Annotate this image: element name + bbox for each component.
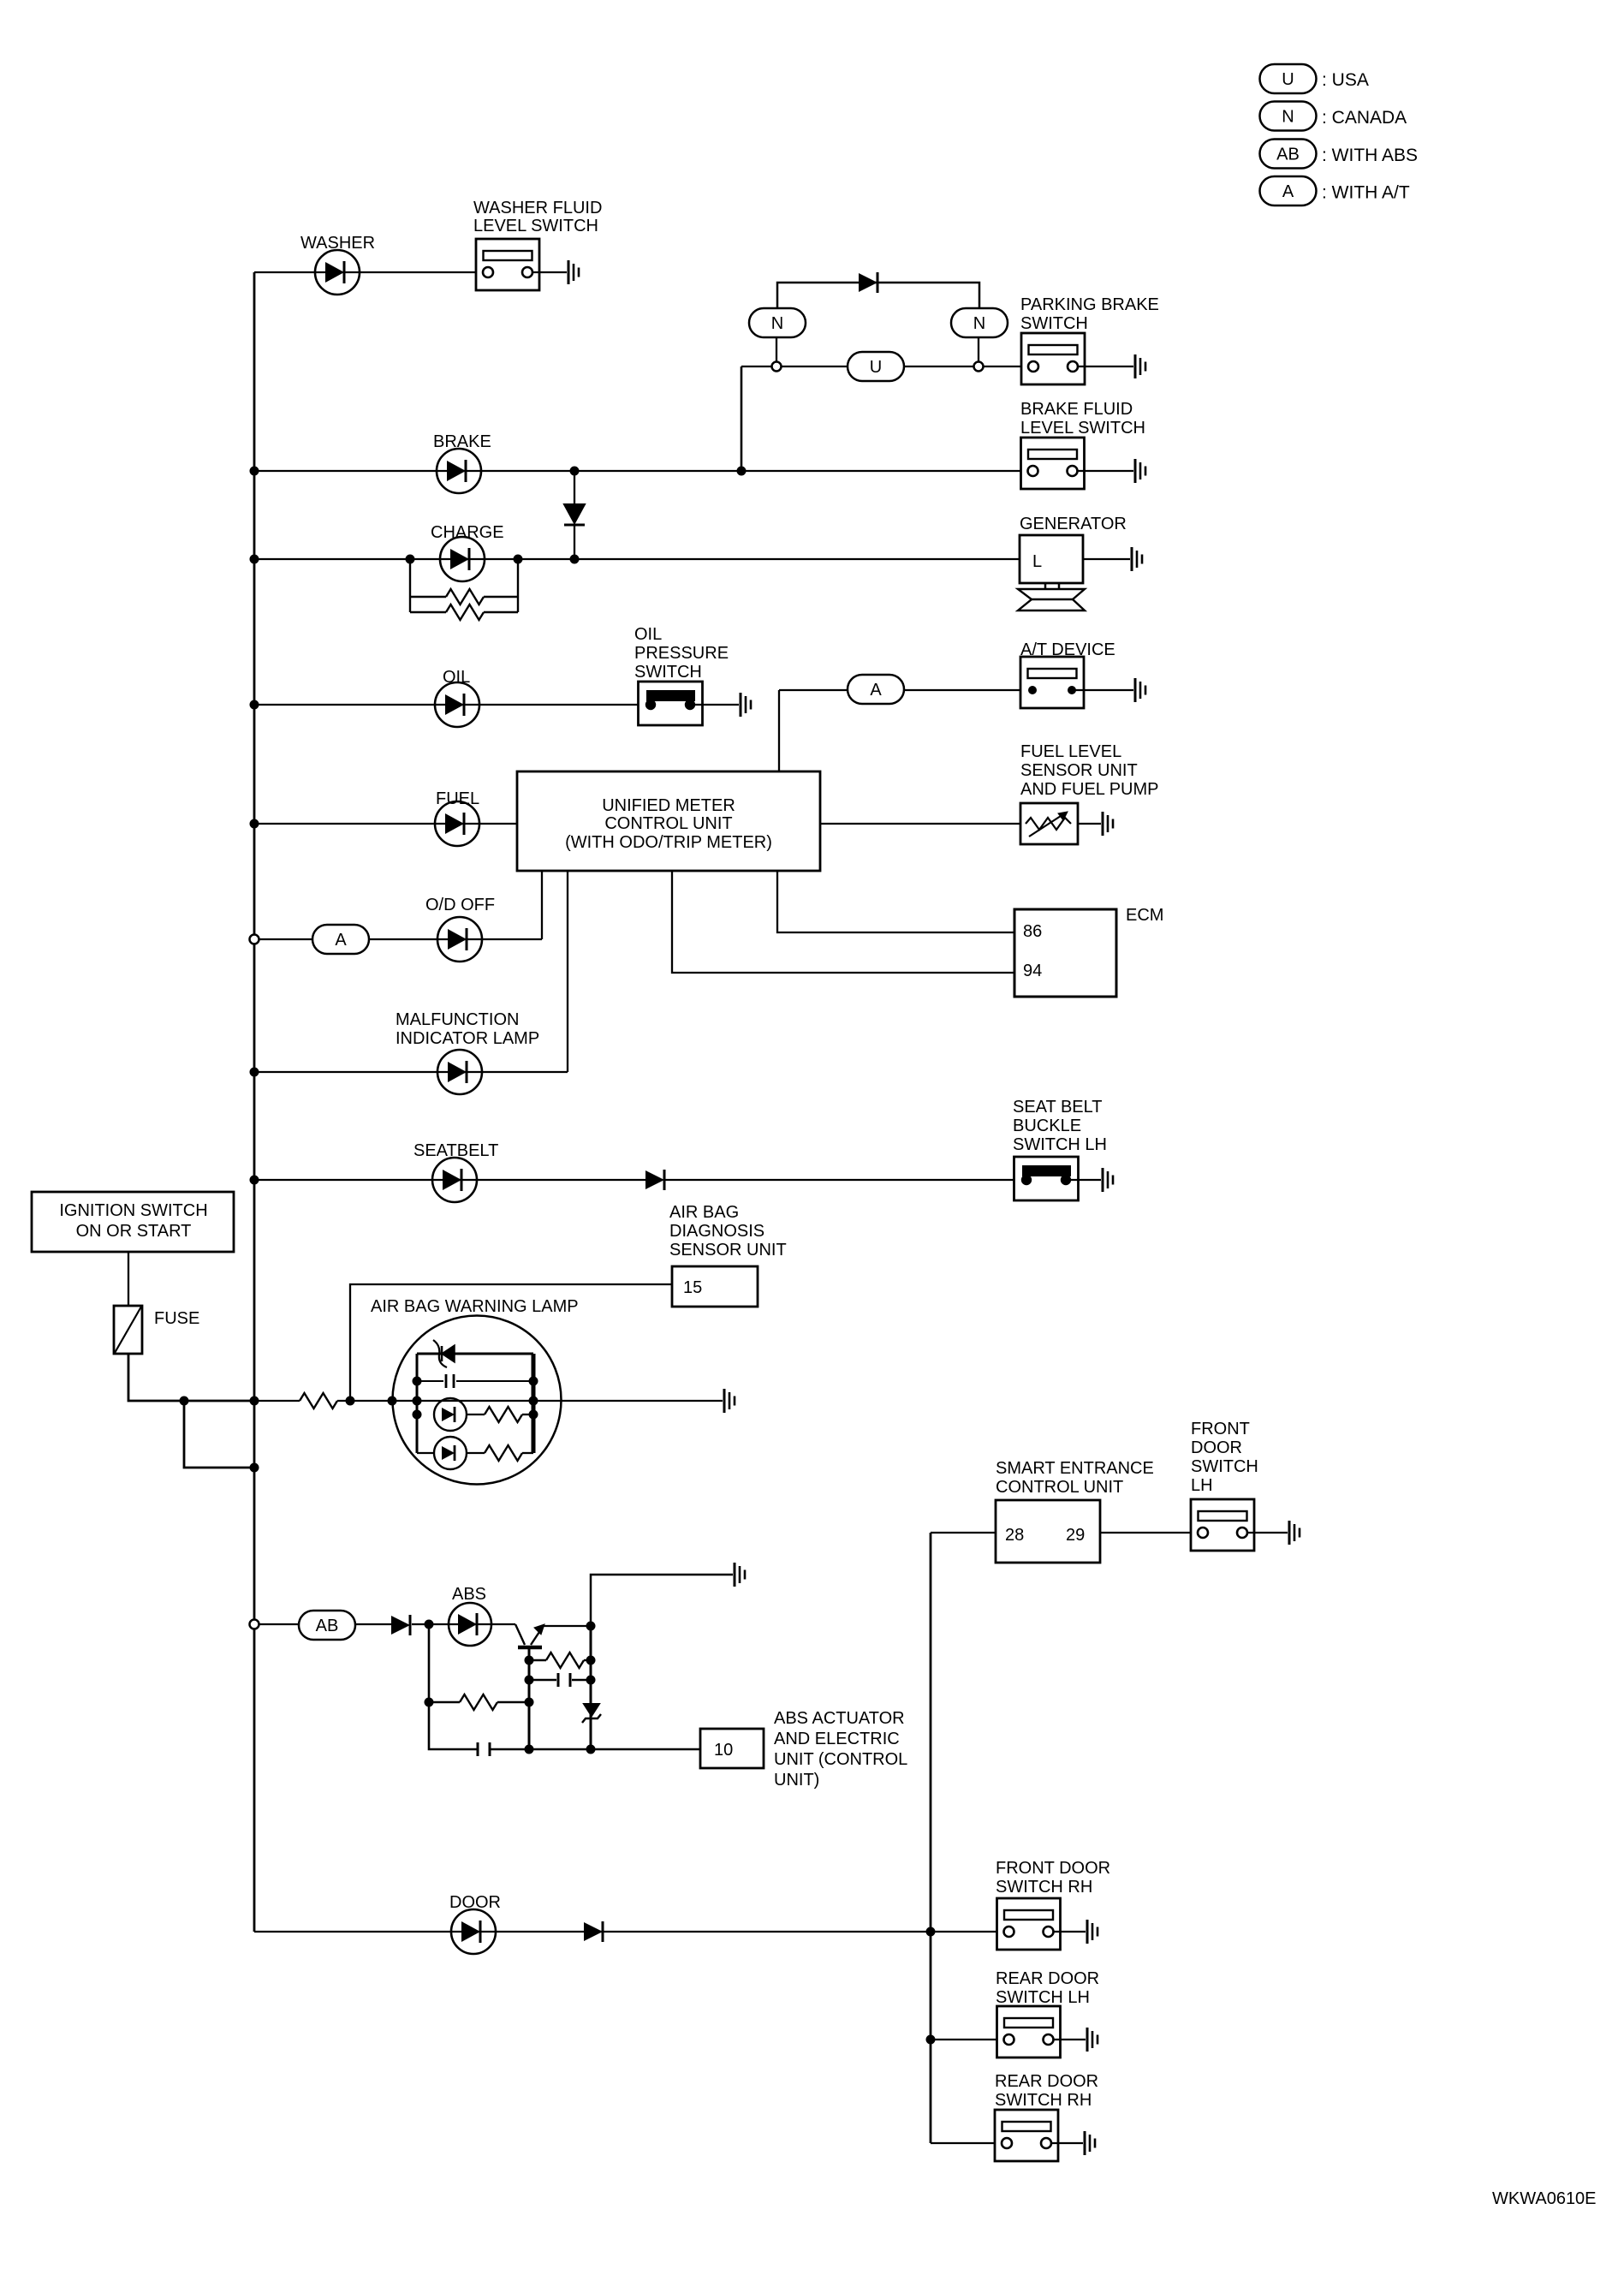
lamp airbag element lower: [417, 1437, 467, 1469]
svg-text:AB: AB: [1276, 146, 1300, 164]
svg-text:N: N: [973, 314, 985, 333]
wire riser to diagnosis sensor unit: [350, 1284, 672, 1401]
wire A/T device to ground: [1072, 689, 1133, 691]
wire brake row: [254, 470, 1027, 472]
wire ABS feedback resistor row: [529, 1659, 591, 1661]
ground front door switch LH: [1289, 1521, 1300, 1545]
rear door switch LH: [997, 2006, 1061, 2058]
svg-text:OIL: OIL: [443, 668, 470, 687]
svg-text:SWITCH: SWITCH: [634, 663, 702, 682]
option connector AB: [299, 1611, 355, 1640]
wire washer row left: [254, 271, 482, 273]
wire transistor emitter to right rail: [543, 1625, 591, 1627]
node open junction N left: [772, 362, 782, 372]
oil pressure switch: [639, 682, 703, 725]
wire rail to rear door switch RH: [931, 2142, 1002, 2144]
svg-text:AND FUEL PUMP: AND FUEL PUMP: [1020, 780, 1159, 799]
wire oil switch to ground: [690, 704, 739, 706]
node bus-seatbelt junction: [250, 1176, 259, 1185]
node ABS resistor junctions: [525, 1656, 596, 1665]
warning lamp FUEL: [435, 801, 479, 846]
air bag warning lamp assembly: [393, 1316, 562, 1485]
svg-text:SWITCH: SWITCH: [1020, 314, 1088, 333]
svg-text:PRESSURE: PRESSURE: [634, 644, 729, 663]
svg-text:FUEL: FUEL: [436, 789, 479, 808]
svg-text:86: 86: [1023, 922, 1042, 941]
wire diode to ABS lamp: [412, 1623, 515, 1625]
wire airbag row to resistor: [254, 1400, 300, 1402]
node airbag internal junctions: [388, 1377, 538, 1420]
smart entrance control unit pins 28 29: [996, 1500, 1100, 1563]
ground front door switch RH: [1087, 1920, 1098, 1944]
legend option connector A: [1260, 176, 1317, 205]
ground washer switch: [568, 260, 579, 284]
svg-text:15: 15: [683, 1278, 702, 1297]
wire A oval to A/T device: [904, 689, 1032, 691]
washer fluid level switch: [476, 239, 539, 290]
svg-text:BUCKLE: BUCKLE: [1013, 1117, 1081, 1135]
ground generator: [1132, 547, 1142, 571]
wire ABS bottom row to unit: [490, 1748, 700, 1751]
wire fuel sensor to ground: [1078, 823, 1101, 825]
svg-text:ABS: ABS: [452, 1585, 486, 1604]
wire MIL row: [254, 1071, 568, 1073]
svg-text:: USA: : USA: [1322, 70, 1369, 90]
wire oil row: [254, 704, 651, 706]
diode brake-to-charge: [564, 471, 585, 559]
wire A/T riser to meter unit: [778, 690, 780, 771]
wire buckle switch to ground: [1066, 1179, 1101, 1181]
node ABS branch junction: [425, 1620, 434, 1629]
ECM: [1014, 909, 1116, 997]
warning lamp WASHER: [315, 250, 360, 295]
node charge-diode junction: [570, 555, 580, 564]
svg-text:BRAKE: BRAKE: [433, 432, 491, 451]
svg-text:INDICATOR LAMP: INDICATOR LAMP: [396, 1029, 539, 1048]
svg-text:UNIT): UNIT): [774, 1771, 819, 1790]
svg-text:N: N: [771, 314, 783, 333]
diode airbag lamp top branch: [433, 1340, 455, 1367]
svg-text:U: U: [870, 358, 882, 377]
resistor airbag feed: [300, 1393, 337, 1408]
A/T device: [1020, 657, 1084, 708]
svg-text:N: N: [1282, 108, 1294, 127]
warning lamp OIL: [435, 682, 479, 727]
wire meter unit to ECM pin 86: [777, 871, 1014, 932]
option connector A (A/T row): [848, 675, 904, 704]
svg-text:ABS ACTUATOR: ABS ACTUATOR: [774, 1709, 905, 1728]
wire N connector top loop: [777, 283, 979, 309]
transistor ABS lamp driver: [515, 1624, 544, 1647]
wire N connector left riser: [776, 336, 777, 366]
svg-text:AIR BAG: AIR BAG: [669, 1203, 739, 1222]
svg-text:WKWA0610E: WKWA0610E: [1492, 2189, 1597, 2208]
svg-text:10: 10: [714, 1741, 733, 1760]
svg-text:REAR DOOR: REAR DOOR: [995, 2072, 1098, 2091]
wire O/D OFF row: [259, 938, 542, 940]
svg-text:94: 94: [1023, 962, 1042, 980]
svg-text:SENSOR UNIT: SENSOR UNIT: [1020, 761, 1138, 780]
warning lamp CHARGE: [440, 537, 485, 581]
wire door row: [254, 1931, 1004, 1933]
ground brake fluid level switch: [1135, 459, 1145, 483]
wire charge resistor loop: [410, 559, 518, 612]
option connector A (O/D row): [312, 925, 369, 954]
ground parking brake switch: [1135, 354, 1145, 378]
svg-text:UNIT (CONTROL: UNIT (CONTROL: [774, 1750, 907, 1769]
wire ABS lower resistor row: [429, 1701, 529, 1704]
front door switch LH: [1191, 1499, 1254, 1551]
svg-text:PARKING BRAKE: PARKING BRAKE: [1020, 295, 1159, 314]
wire seatbelt row right: [664, 1179, 1026, 1181]
node open junction bus O/D: [250, 935, 259, 944]
ground oil pressure switch: [741, 693, 751, 717]
svg-text:(WITH ODO/TRIP METER): (WITH ODO/TRIP METER): [565, 833, 772, 852]
wire parking brake row: [741, 366, 1028, 367]
wire fuse parallel loop: [184, 1401, 254, 1468]
warning lamp MALFUNCTION INDICATOR: [437, 1050, 482, 1094]
wire rear door switch RH to ground: [1050, 2142, 1083, 2144]
wire fuse to bus: [128, 1354, 254, 1401]
svg-text:O/D OFF: O/D OFF: [425, 896, 495, 914]
svg-text:SEAT BELT: SEAT BELT: [1013, 1098, 1102, 1117]
node open junction N right: [974, 362, 984, 372]
svg-text:GENERATOR: GENERATOR: [1020, 515, 1127, 533]
svg-text:LEVEL SWITCH: LEVEL SWITCH: [1020, 419, 1145, 438]
resistor airbag element upper: [467, 1407, 533, 1422]
node rail-door junction: [926, 1927, 936, 1937]
diode seatbelt row: [645, 1170, 664, 1190]
svg-text:ON OR START: ON OR START: [76, 1222, 192, 1241]
wire front door switch LH to ground: [1247, 1532, 1288, 1534]
ground A/T device: [1135, 678, 1145, 702]
svg-text:SMART ENTRANCE: SMART ENTRANCE: [996, 1459, 1154, 1478]
ignition switch source box: [32, 1192, 234, 1252]
wire main supply bus vertical: [253, 272, 256, 1932]
air bag diagnosis sensor unit pin 15: [672, 1266, 758, 1307]
svg-text:SWITCH RH: SWITCH RH: [995, 2091, 1092, 2110]
legend option connector N: [1260, 102, 1317, 131]
svg-text:ECM: ECM: [1126, 906, 1163, 925]
svg-text:: WITH ABS: : WITH ABS: [1322, 146, 1418, 165]
diode ABS row: [391, 1615, 410, 1635]
option connector N left: [749, 308, 806, 337]
svg-text:CONTROL UNIT: CONTROL UNIT: [996, 1478, 1123, 1497]
svg-text:SWITCH LH: SWITCH LH: [1013, 1135, 1107, 1154]
ground rear door switch RH: [1085, 2131, 1095, 2155]
rear door switch RH: [995, 2110, 1058, 2161]
resistor charge parallel lower: [446, 604, 484, 620]
node rail-rear-LH junction: [926, 2035, 936, 2045]
zener diode ABS clamp: [582, 1704, 601, 1723]
wire ABS left branch down: [429, 1624, 478, 1749]
svg-text:FRONT: FRONT: [1191, 1420, 1250, 1438]
node ABS lower resistor junctions: [425, 1698, 534, 1707]
svg-text:OIL: OIL: [634, 625, 662, 644]
warning lamp O/D OFF: [437, 917, 482, 962]
node bus-MIL junction: [250, 1068, 259, 1077]
resistor airbag element lower: [467, 1445, 533, 1461]
node open junction bus ABS: [250, 1620, 259, 1629]
svg-text:AND ELECTRIC: AND ELECTRIC: [774, 1730, 900, 1748]
svg-text:SWITCH: SWITCH: [1191, 1457, 1258, 1476]
wire door switch rail vertical: [930, 1533, 932, 2143]
warning lamp BRAKE: [437, 449, 481, 493]
svg-text:U: U: [1282, 70, 1294, 89]
svg-text:SENSOR UNIT: SENSOR UNIT: [669, 1241, 787, 1260]
wire rear door switch LH to ground: [1053, 2039, 1086, 2040]
svg-text:A: A: [335, 931, 347, 950]
brake fluid level switch: [1021, 438, 1085, 489]
wire rail to smart entrance unit: [931, 1532, 996, 1534]
wire parking brake branch riser: [741, 366, 743, 471]
unified meter control unit: [517, 771, 820, 871]
wire ignition to fuse: [128, 1252, 129, 1306]
node bus-airbag junction: [250, 1397, 259, 1406]
parking brake switch: [1021, 333, 1085, 384]
svg-text:LH: LH: [1191, 1476, 1213, 1495]
svg-text:UNIFIED METER: UNIFIED METER: [602, 796, 735, 815]
wire airbag resistor to lamp: [337, 1400, 392, 1402]
svg-text:WASHER: WASHER: [300, 234, 375, 253]
svg-text:: WITH A/T: : WITH A/T: [1322, 183, 1410, 203]
ground rear door switch LH: [1087, 2028, 1098, 2052]
diode parking brake N loop: [859, 272, 877, 293]
svg-text:: CANADA: : CANADA: [1322, 108, 1407, 128]
wire washer switch to ground: [532, 271, 567, 273]
diode door row: [584, 1921, 603, 1942]
node emitter junction: [586, 1622, 596, 1631]
warning lamp DOOR: [451, 1909, 496, 1954]
warning lamp SEATBELT: [432, 1158, 477, 1202]
svg-text:WASHER FLUID: WASHER FLUID: [473, 199, 602, 217]
wire O/D riser to meter unit: [541, 871, 543, 939]
node charge resistor right junction: [514, 555, 523, 564]
front door switch RH: [997, 1898, 1061, 1950]
warning lamp ABS: [449, 1603, 491, 1646]
svg-text:DIAGNOSIS: DIAGNOSIS: [669, 1222, 764, 1241]
node fuse-loop junction: [180, 1397, 189, 1406]
ground seat belt buckle switch: [1103, 1168, 1113, 1192]
resistor charge parallel upper: [446, 589, 484, 604]
wire transistor collector rail: [528, 1649, 531, 1749]
svg-text:A: A: [1282, 182, 1294, 201]
svg-text:IGNITION SWITCH: IGNITION SWITCH: [59, 1201, 207, 1220]
svg-text:LEVEL SWITCH: LEVEL SWITCH: [473, 217, 598, 235]
capacitor airbag lamp branch: [417, 1374, 533, 1388]
svg-text:MALFUNCTION: MALFUNCTION: [396, 1010, 519, 1029]
node bus-charge junction: [250, 555, 259, 564]
svg-text:BRAKE FLUID: BRAKE FLUID: [1020, 400, 1133, 419]
wire ABS row left: [259, 1623, 299, 1625]
svg-text:FUEL LEVEL: FUEL LEVEL: [1020, 742, 1121, 761]
wire generator to ground: [1083, 558, 1130, 560]
wire front door switch RH to ground: [1053, 1931, 1086, 1933]
lamp airbag element upper: [434, 1398, 467, 1431]
svg-text:CONTROL UNIT: CONTROL UNIT: [604, 814, 732, 833]
svg-text:CHARGE: CHARGE: [431, 523, 504, 542]
node bus-brake junction: [250, 467, 259, 476]
wire brake switch to ground: [1078, 470, 1133, 472]
node brake-diode junction: [570, 467, 580, 476]
node ABS bottom junctions: [525, 1745, 596, 1754]
node airbag branch junction: [346, 1397, 355, 1406]
fuse FUSE: [114, 1306, 142, 1354]
wire MIL riser to meter unit: [567, 871, 568, 1072]
wire smart entrance to front door switch LH: [1100, 1532, 1198, 1534]
wire charge row: [254, 558, 1020, 560]
wire A/T row: [779, 689, 848, 691]
svg-text:FUSE: FUSE: [154, 1309, 199, 1328]
svg-text:28: 28: [1005, 1526, 1024, 1545]
wire seatbelt row left: [254, 1179, 645, 1181]
svg-text:A: A: [870, 681, 882, 700]
fuel level sensor unit: [1020, 803, 1078, 844]
wire airbag row through lamp to ground: [392, 1400, 723, 1402]
ground ABS network: [735, 1563, 745, 1587]
node charge resistor left junction: [406, 555, 415, 564]
legend option connector AB: [1260, 140, 1317, 169]
wire parking brake switch to ground: [1078, 366, 1133, 367]
wire meter unit to fuel sensor: [820, 823, 1020, 825]
legend option connector U: [1260, 64, 1317, 93]
capacitor ABS lower: [478, 1742, 490, 1756]
svg-text:DOOR: DOOR: [1191, 1438, 1242, 1457]
svg-text:REAR DOOR: REAR DOOR: [996, 1969, 1099, 1988]
wire meter unit to ECM pin 94: [672, 871, 1014, 973]
node bus-oil junction: [250, 700, 259, 710]
option connector U: [848, 352, 904, 381]
generator: [1018, 535, 1085, 610]
node bus-loop lower junction: [250, 1463, 259, 1473]
wire AB oval to diode: [355, 1623, 391, 1625]
resistor ABS base divider: [460, 1694, 497, 1710]
node bus-fuel junction: [250, 819, 259, 829]
wire right rail to ground: [591, 1575, 733, 1626]
svg-text:SWITCH LH: SWITCH LH: [996, 1988, 1090, 2007]
seat belt buckle switch LH: [1014, 1157, 1079, 1200]
node ABS capacitor junctions: [525, 1676, 596, 1685]
ground air bag warning lamp: [724, 1389, 735, 1413]
svg-text:29: 29: [1066, 1526, 1085, 1545]
capacitor ABS upper: [529, 1673, 591, 1687]
resistor ABS feedback: [546, 1653, 584, 1668]
ground fuel level sensor: [1103, 812, 1113, 836]
option connector N right: [951, 308, 1008, 337]
wire rail to rear door switch LH: [931, 2039, 1004, 2040]
svg-text:AIR BAG WARNING LAMP: AIR BAG WARNING LAMP: [371, 1297, 579, 1316]
node brake-parking junction: [737, 467, 747, 476]
wire fuel row: [254, 823, 517, 825]
svg-text:AB: AB: [316, 1617, 339, 1635]
svg-text:SEATBELT: SEATBELT: [413, 1141, 498, 1160]
ABS actuator unit pin 10: [700, 1729, 764, 1768]
wire right rail down: [590, 1626, 592, 1749]
svg-text:DOOR: DOOR: [449, 1893, 501, 1912]
wire N connector right riser: [978, 336, 979, 366]
svg-text:FRONT DOOR: FRONT DOOR: [996, 1859, 1110, 1878]
svg-text:L: L: [1032, 552, 1042, 571]
svg-text:SWITCH RH: SWITCH RH: [996, 1878, 1092, 1897]
